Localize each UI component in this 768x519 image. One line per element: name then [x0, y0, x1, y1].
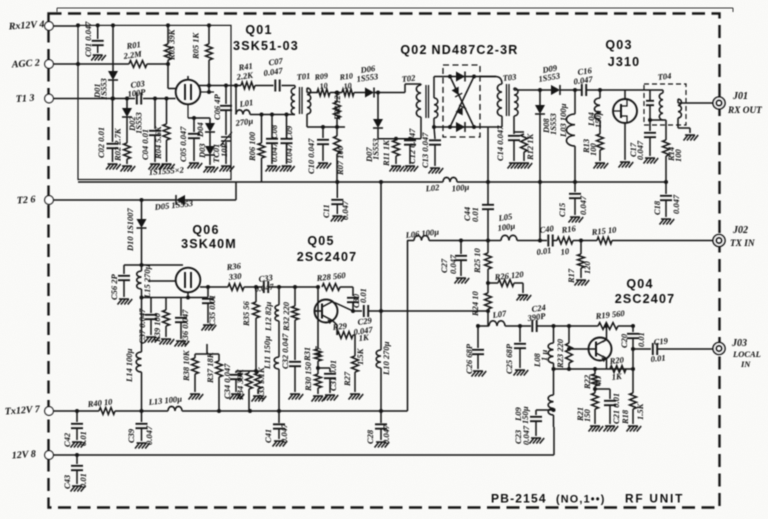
capacitor C35 0.01: [202, 299, 214, 303]
wire C05 top: [193, 118, 195, 132]
svg-text:1S553: 1S553: [371, 138, 381, 160]
wire TX bus start: [407, 240, 414, 242]
svg-text:L11 150µ: L11 150µ: [262, 336, 272, 370]
inductor L08 1u: [548, 343, 553, 363]
wire spine to TX bus: [487, 209, 489, 241]
wire L01 to T01 primary bottom: [250, 114, 295, 116]
transformer T03 core: [507, 84, 510, 116]
junction: [234, 84, 238, 88]
capacitor C15 0.047: [569, 194, 581, 198]
wire C09 top: [286, 115, 288, 139]
ground C01: [91, 55, 106, 61]
svg-text:T02: T02: [401, 73, 416, 84]
resistor R08 120: [334, 102, 341, 118]
wire C12 bottom: [409, 145, 411, 165]
svg-text:TX IN: TX IN: [730, 239, 755, 249]
svg-text:1.5K: 1.5K: [355, 347, 365, 365]
wire R07 to bus: [336, 154, 338, 182]
capacitor C42 0.01: [71, 424, 83, 428]
junction: [552, 408, 556, 412]
junction: [166, 23, 170, 27]
ground R11: [390, 166, 405, 172]
resistor R28 560: [322, 284, 340, 291]
wire C08 top: [271, 115, 273, 139]
ground C18: [660, 219, 675, 225]
transformer T01 core: [300, 87, 303, 114]
wire R25 to R26 node: [487, 269, 489, 283]
capacitor C39 0.047: [136, 424, 148, 428]
wire R32 to C32: [294, 320, 296, 360]
junction: [518, 324, 522, 328]
inductor L05 100u: [501, 235, 517, 240]
inductor L03 100u: [566, 114, 575, 146]
capacitor C10 0.047: [317, 140, 329, 144]
jack J01: [713, 97, 725, 109]
shield box around Q01 input stage: [78, 25, 231, 179]
svg-text:R12 1K: R12 1K: [525, 132, 535, 161]
wire L07 to C24: [505, 325, 531, 327]
capacitor C40 0.01: [548, 235, 552, 247]
capacitor C16 0.047: [582, 84, 586, 96]
wire R11 bottom: [395, 156, 397, 164]
wire L03 top: [574, 90, 576, 114]
transistor Q04 2SC2407: [589, 338, 612, 361]
resistor R31 4.7: [315, 349, 322, 361]
wire L12 top: [278, 287, 280, 305]
diode Q02d: [456, 122, 465, 132]
svg-text:D04: D04: [195, 122, 205, 138]
wire C06 to TC01: [225, 110, 227, 135]
capacitor C34 0.047: [230, 375, 242, 379]
wire L04 top: [599, 90, 601, 98]
ground C12: [404, 166, 419, 172]
ground R13: [594, 163, 609, 169]
svg-text:2SC2407: 2SC2407: [297, 250, 358, 264]
wire mixer bottom to L02 bus: [487, 127, 489, 182]
wire R26 to ground leg: [514, 282, 523, 284]
junction: [476, 324, 480, 328]
svg-text:C19: C19: [653, 335, 669, 347]
wire C13 top: [434, 127, 435, 139]
wire C19 left: [633, 348, 651, 350]
wire D01 anode: [112, 25, 114, 71]
wire C28 bottom: [380, 429, 382, 441]
wire C05 bottom: [193, 138, 195, 161]
diode Q02b: [452, 87, 463, 97]
wire C37 top: [150, 298, 152, 314]
ground C39: [135, 443, 150, 449]
svg-text:C42: C42: [62, 432, 72, 447]
wire into T03 primary: [496, 77, 502, 85]
wire TX12V: [54, 410, 100, 412]
wire AGC: [54, 63, 130, 65]
wire L15 top: [141, 265, 143, 271]
junction: [316, 285, 320, 289]
svg-text:C25 68P: C25 68P: [504, 343, 514, 374]
wire C03 to Q01 gate1: [143, 98, 176, 100]
wire R22-R21: [594, 386, 596, 393]
transformer T02 core: [426, 85, 429, 118]
inductor L15 270u: [137, 271, 142, 289]
junction: [335, 180, 339, 184]
junction: [76, 62, 80, 66]
wire C18 top: [665, 182, 667, 194]
wire Q05 collector to node: [335, 303, 354, 312]
junction: [631, 367, 635, 371]
svg-text:C41: C41: [263, 429, 273, 443]
junction: [335, 125, 339, 129]
svg-text:R31: R31: [302, 347, 312, 362]
wire D02 to R02: [126, 117, 128, 143]
wire R02 bottom: [126, 159, 128, 164]
svg-text:IN: IN: [740, 359, 751, 369]
terminal T1 pin 3: [45, 94, 54, 103]
resistor R23 220: [566, 343, 573, 363]
svg-text:LOCAL: LOCAL: [732, 349, 761, 359]
svg-text:0.01: 0.01: [536, 245, 552, 257]
wire T03 to mixer: [488, 126, 502, 128]
capacitor C05 0.047: [188, 134, 200, 138]
diode D08 1S553: [535, 105, 545, 114]
resistor R03 39K: [165, 44, 172, 60]
diode D07 1S553: [373, 119, 383, 128]
wire R23 top: [568, 326, 570, 343]
ground C42: [71, 442, 86, 448]
junction: [631, 347, 635, 351]
wire C35 top: [207, 287, 209, 297]
ground C08: [266, 166, 281, 172]
junction: [459, 239, 463, 243]
wire TC01 bottom: [225, 142, 227, 164]
wire C15 top: [574, 182, 576, 192]
wire C35 bottom: [207, 303, 209, 323]
svg-text:L01: L01: [238, 97, 254, 109]
junction: [140, 296, 144, 300]
junction: [394, 137, 398, 141]
wire Q03 source: [624, 123, 626, 160]
svg-text:0.047: 0.047: [284, 143, 294, 163]
wire R03 bottom: [167, 60, 169, 89]
inductor L12 82u: [275, 305, 279, 321]
wire Q04 base: [569, 348, 589, 350]
capacitor C56 2P: [118, 276, 130, 280]
junction: [552, 367, 556, 371]
resistor R30 150: [315, 374, 322, 388]
wire C02 top: [112, 99, 114, 143]
svg-text:0.01: 0.01: [470, 207, 480, 222]
wire L15 bottom: [141, 289, 143, 298]
ground Q03: [619, 162, 634, 168]
capacitor C31 0.01: [324, 374, 336, 378]
junction: [125, 97, 129, 101]
wire 12V riser to L09: [553, 427, 555, 455]
wire R03 top: [167, 25, 169, 44]
junction: [379, 309, 383, 313]
wire C43 bottom: [76, 470, 78, 484]
wire T04 ground leg: [689, 128, 691, 133]
transformer T01 primary: [291, 88, 295, 114]
ground C15: [569, 217, 584, 223]
junction: [567, 367, 571, 371]
wire mixer top: [443, 76, 496, 78]
junction: [593, 387, 597, 391]
wire bias stub: [206, 344, 208, 354]
transformer T01 secondary: [307, 88, 311, 114]
ground C27: [455, 278, 470, 284]
ground C21: [604, 426, 619, 432]
resistor R35 56: [253, 302, 260, 318]
wire C39 bottom: [141, 428, 143, 441]
wire R14 to bus: [665, 156, 667, 182]
ground C11: [331, 216, 346, 222]
wire mixer bottom: [443, 126, 488, 128]
wire T04 primary top: [662, 90, 664, 93]
wire spine upper: [487, 182, 489, 204]
wire T03 primary bottom: [501, 116, 503, 127]
wire R40 to L13: [115, 410, 168, 412]
wire C17 top: [649, 120, 651, 131]
junction: [254, 369, 258, 373]
svg-text:R18: R18: [620, 409, 630, 425]
ground R30: [312, 396, 327, 402]
junction: [277, 409, 281, 413]
junction: [579, 239, 583, 243]
capacitor C30 0.01: [347, 298, 359, 302]
ground C04: [149, 164, 164, 170]
capacitor C23 0.047: [530, 417, 542, 421]
wire R33 bottom: [257, 389, 259, 394]
wire T02 feed riser: [404, 84, 406, 93]
wire R17 top: [580, 241, 582, 255]
inductor L04 150u: [594, 98, 600, 120]
svg-text:150: 150: [582, 409, 592, 423]
diode D01 1S553: [108, 71, 118, 80]
svg-text:R25 10: R25 10: [472, 247, 482, 274]
ground C37: [145, 337, 160, 343]
terminal RX12V pin 4: [45, 22, 54, 31]
page top edge line: [57, 8, 733, 12]
wire to mixer box bottom: [434, 126, 443, 128]
svg-text:R04 5.6K: R04 5.6K: [153, 125, 163, 160]
capacitor C27 0.047: [455, 256, 467, 260]
svg-text:R02 2.7K: R02 2.7K: [113, 127, 123, 162]
junction: [448, 125, 452, 129]
wire L10 top: [380, 311, 382, 350]
wire T04 primary bottom: [650, 119, 663, 121]
junction: [648, 118, 652, 122]
wire riser to bus: [235, 182, 237, 200]
capacitor C17 0.047: [644, 133, 656, 137]
resistor R02 2.7K: [124, 143, 131, 159]
wire T01 secondary bottom lead: [306, 114, 308, 127]
svg-text:C34 0.047: C34 0.047: [222, 363, 232, 399]
svg-text:C08: C08: [269, 124, 279, 139]
transistor Q03 J310: [613, 99, 637, 123]
svg-text:RF UNIT: RF UNIT: [625, 492, 684, 506]
svg-text:Q05: Q05: [307, 234, 334, 248]
wire L04 to R13: [599, 120, 601, 134]
svg-text:L07: L07: [491, 308, 508, 320]
wire C12 top: [409, 138, 411, 140]
ground C56: [118, 299, 133, 305]
wire Q04 emitter: [606, 359, 608, 370]
wire C09 bottom: [286, 143, 288, 164]
junction: [270, 113, 274, 117]
resistor R38 10K: [192, 358, 199, 374]
svg-text:AGC 2: AGC 2: [10, 58, 40, 71]
ground C43: [71, 486, 86, 492]
resistor R29 1K: [337, 332, 353, 339]
capacitor T04 tuning: [646, 101, 654, 105]
junction: [538, 239, 542, 243]
svg-text:Q03: Q03: [605, 38, 632, 52]
capacitor C37 0.047: [145, 315, 157, 319]
wire C11 top: [336, 182, 338, 198]
wire C20 top: [632, 326, 634, 332]
capacitor C13 0.047: [429, 140, 441, 144]
wire D02 anode: [126, 99, 128, 109]
transformer T03 primary: [497, 84, 502, 116]
wire R38 bottom: [194, 374, 196, 392]
svg-text:C32 0.047: C32 0.047: [280, 333, 290, 369]
wire D03 bottom: [209, 155, 211, 165]
capacitor C06 4P: [220, 106, 232, 110]
svg-text:C26 68P: C26 68P: [464, 343, 474, 374]
capacitor C19 0.01: [653, 343, 657, 355]
wire R26 ground leg: [522, 283, 524, 293]
wire secondary bottom to R08 column: [307, 126, 345, 128]
wire TX bus 3: [517, 240, 547, 242]
svg-text:R39 100: R39 100: [152, 312, 162, 343]
svg-text:T2 6: T2 6: [16, 194, 35, 206]
inductor L11 150u: [274, 357, 279, 369]
wire to R24: [487, 283, 489, 293]
wire D07 anode: [377, 93, 379, 120]
ground C26: [472, 371, 487, 377]
wire to mixer box top: [434, 76, 443, 78]
wire R24 bottom: [487, 309, 489, 326]
resistor R22 4.7: [592, 374, 599, 386]
svg-text:C12 0.047: C12 0.047: [407, 128, 417, 164]
resistor R09 10: [317, 89, 330, 96]
wire to R26: [488, 282, 498, 284]
svg-text:0.047: 0.047: [279, 423, 289, 443]
wire T02 primary bottom: [420, 117, 422, 139]
ground R26: [517, 295, 532, 301]
jack J03: [713, 343, 725, 355]
wire R17 bottom: [580, 268, 582, 278]
wire R16 to R15: [573, 240, 597, 242]
wire R01 to R03 column: [147, 63, 168, 65]
resistor R11 1K: [393, 140, 400, 156]
junction: [254, 285, 258, 289]
svg-text:T04: T04: [657, 71, 672, 82]
svg-text:100µ: 100µ: [451, 182, 470, 194]
wire R34 to bus: [248, 389, 250, 411]
wire to C31: [318, 367, 330, 369]
wire C28 top: [380, 411, 382, 423]
junction: [567, 324, 571, 328]
wire T04 to J01: [678, 102, 713, 104]
wire C10 bottom: [322, 144, 324, 161]
wire TX bus 2: [429, 240, 501, 242]
transistor Q05 2SC2407: [315, 300, 338, 323]
ground T04: [684, 135, 699, 141]
wire R35 bottom: [255, 318, 257, 371]
wire R27 bottom: [354, 372, 356, 392]
wire L01 riser: [235, 86, 237, 115]
wire mixer diagonal 2: [450, 77, 474, 128]
svg-text:C14 0.047: C14 0.047: [495, 125, 505, 161]
wire R10 to D06: [354, 92, 365, 94]
svg-text:R38 10K: R38 10K: [181, 349, 191, 382]
diode Q02a: [456, 72, 465, 82]
capacitor C11 0.047: [331, 200, 343, 204]
wire RX12V feed: [54, 25, 79, 27]
wire R28 to C30: [340, 286, 353, 288]
wire D07 to T02 bottom: [378, 138, 421, 140]
ground R02: [121, 166, 136, 172]
capacitor C12 0.047: [404, 140, 416, 144]
junction: [593, 367, 597, 371]
inductor L09 150u: [548, 395, 553, 415]
svg-text:PB-2154: PB-2154: [491, 492, 547, 506]
capacitor C26 68P: [472, 350, 484, 354]
junction: [432, 125, 436, 129]
diode D02 1S553: [122, 108, 132, 117]
wire C30 bottom: [352, 302, 354, 311]
diode D04 1S1555: [205, 123, 215, 132]
capacitor C43 0.01: [71, 466, 83, 470]
wire Q04 collector: [606, 326, 608, 340]
svg-text:R17: R17: [566, 268, 576, 284]
resistor R06 100: [258, 143, 265, 158]
resistor R20 1K: [610, 366, 626, 373]
resistor R18 1.5K: [630, 393, 637, 409]
wire C11 bottom: [336, 204, 338, 214]
wire R38 top: [194, 354, 196, 358]
svg-text:100: 100: [673, 149, 683, 163]
svg-text:R35 56: R35 56: [241, 300, 251, 327]
junction: [140, 198, 144, 202]
wire D08 to bus: [539, 114, 541, 182]
wire C18 bottom: [665, 200, 667, 217]
ground C09: [280, 166, 295, 172]
terminal T2 pin 6: [45, 196, 54, 205]
svg-text:C20: C20: [619, 333, 629, 348]
transistor Q01 3SK51-03 dual-gate FET: [176, 80, 201, 105]
wire R08 top: [336, 93, 338, 103]
svg-text:L10 270µ: L10 270µ: [381, 341, 391, 376]
wire R37 top: [218, 354, 220, 361]
ground C17: [644, 158, 659, 164]
svg-text:L14 100µ: L14 100µ: [124, 348, 134, 383]
svg-text:C01 0.047: C01 0.047: [83, 21, 93, 57]
junction: [96, 23, 100, 27]
wire T02 feed top: [405, 83, 421, 85]
junction: [207, 84, 211, 88]
junction: [486, 281, 490, 285]
wire Q05 output: [368, 310, 488, 312]
svg-text:1.5K: 1.5K: [635, 402, 645, 420]
svg-text:C13 0.047: C13 0.047: [420, 132, 430, 168]
wire C27 bottom: [460, 260, 462, 276]
capacitor C20 0.01: [627, 334, 639, 338]
svg-text:R27: R27: [342, 371, 352, 387]
junction: [192, 116, 196, 120]
resistor R39 100: [163, 310, 170, 326]
wire D08 bus to TX bus: [539, 182, 541, 241]
